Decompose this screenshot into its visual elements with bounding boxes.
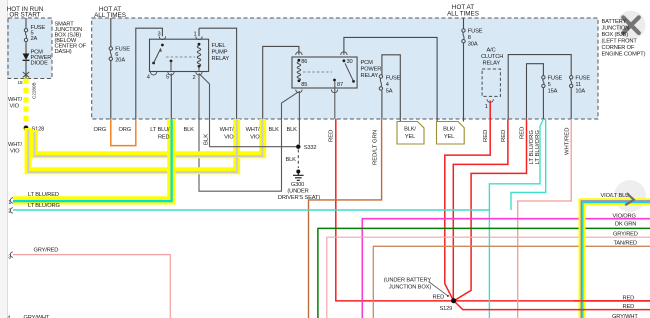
- svg-text:5A: 5A: [386, 89, 393, 95]
- button next circle: [614, 180, 646, 212]
- diode PCM POWER DIODE: [23, 54, 30, 61]
- wire RED staircase 3 to S129: [454, 119, 526, 301]
- pin 86: [296, 52, 302, 55]
- svg-text:PCM: PCM: [361, 60, 374, 66]
- svg-text:LT BLU/RED: LT BLU/RED: [28, 192, 59, 198]
- svg-text:FUSE: FUSE: [468, 29, 483, 35]
- wire bridge WHT/VIO riser 2 to pin 86: [263, 46, 299, 119]
- svg-text:G300: G300: [291, 182, 304, 188]
- svg-text:POWER: POWER: [361, 67, 382, 73]
- pin 4: [150, 72, 156, 75]
- pin 5: [170, 60, 173, 63]
- svg-text:BLK: BLK: [287, 127, 298, 133]
- svg-text:BOX (BJB): BOX (BJB): [602, 32, 629, 38]
- pin 87: [333, 79, 336, 82]
- svg-text:RED: RED: [433, 295, 445, 301]
- svg-text:C2280B: C2280B: [32, 82, 37, 99]
- svg-text:VIO: VIO: [10, 149, 20, 155]
- svg-text:ENGINE COMPT): ENGINE COMPT): [602, 52, 646, 58]
- svg-text:FUSE: FUSE: [575, 76, 590, 82]
- wire TAN/RED: [373, 246, 650, 318]
- svg-text:1: 1: [8, 200, 11, 206]
- svg-text:30: 30: [347, 59, 353, 65]
- wire pin2 to S332 riser (diagonal): [199, 74, 210, 147]
- fuse F8: [462, 29, 465, 32]
- wire LT BLU/ORG long line: [13, 209, 489, 211]
- svg-text:RED: RED: [483, 130, 489, 142]
- svg-text:YEL: YEL: [444, 134, 454, 140]
- svg-text:FUSE: FUSE: [548, 76, 563, 82]
- svg-text:30A: 30A: [468, 42, 478, 48]
- svg-text:TAN/RED: TAN/RED: [614, 240, 638, 246]
- wire pin2 / pin85 ground strap U: [199, 74, 299, 192]
- svg-text:GRY/RED: GRY/RED: [34, 248, 59, 254]
- wire RED A/C pin1 staircase to S129: [445, 119, 490, 301]
- svg-text:ALL TIMES: ALL TIMES: [447, 11, 479, 18]
- svg-text:2: 2: [192, 75, 195, 81]
- svg-text:10A: 10A: [575, 89, 585, 95]
- switch arm (pcm relay): [352, 80, 355, 83]
- svg-text:ORG: ORG: [94, 127, 107, 133]
- wire GRY/RED (right): [327, 237, 650, 318]
- svg-text:5: 5: [166, 75, 169, 81]
- wire pin5 to box edge (LT BLU/RED above edge): [170, 74, 172, 119]
- svg-text:WHT/RED: WHT/RED: [565, 128, 571, 156]
- svg-text:RELAY: RELAY: [361, 73, 379, 79]
- wire pin85 to S332 riser: [298, 91, 300, 145]
- wire VIO/ORG: [362, 219, 650, 318]
- wire bridge pin30 to BLK/YEL 2: [344, 37, 437, 121]
- svg-text:RED: RED: [520, 127, 526, 139]
- svg-text:GRY/RED: GRY/RED: [613, 231, 638, 237]
- svg-text:JUNCTION BOX): JUNCTION BOX): [389, 285, 432, 291]
- svg-text:RED: RED: [329, 130, 335, 142]
- svg-text:RED: RED: [623, 296, 635, 302]
- smart junction box SJB: [8, 18, 52, 79]
- svg-text:VIO: VIO: [250, 135, 260, 141]
- svg-text:BLK: BLK: [184, 127, 195, 133]
- wire LT BLU/ORG 2 staircase: [511, 119, 546, 210]
- wire GRY/RED (left edge pin 3): [13, 255, 170, 318]
- svg-text:JUNCTION: JUNCTION: [602, 26, 630, 32]
- svg-text:ALL TIMES: ALL TIMES: [94, 12, 126, 19]
- svg-text:VIO/LT BLU: VIO/LT BLU: [601, 193, 630, 199]
- button close X: [623, 17, 639, 33]
- svg-text:VIO/ORG: VIO/ORG: [613, 213, 636, 219]
- fuse F5 (SJB): [24, 29, 27, 32]
- svg-text:FUEL: FUEL: [212, 43, 226, 49]
- svg-text:RED/LT GRN: RED/LT GRN: [373, 130, 379, 165]
- svg-text:ORG: ORG: [119, 127, 132, 133]
- svg-text:RELAY: RELAY: [212, 56, 230, 62]
- wire fuse6 to box edge (ORG above edge): [110, 61, 112, 119]
- button close circle: [617, 11, 646, 40]
- splice S129: [451, 298, 456, 303]
- pin 30: [341, 52, 347, 55]
- wire RED overlay across VIO/LT BLU band: [574, 300, 650, 302]
- battery junction box BJB (main hot-at-all-times box): [92, 18, 598, 119]
- svg-text:15A: 15A: [548, 89, 558, 95]
- svg-text:PUMP: PUMP: [212, 50, 228, 56]
- svg-text:BLK: BLK: [269, 127, 280, 133]
- wire pin87 to box edge (RED below): [334, 81, 336, 119]
- fuse F5 (BJB): [542, 76, 545, 79]
- svg-text:BLK: BLK: [286, 157, 297, 163]
- wire DK GRN: [318, 228, 650, 318]
- wire bridge ORG riser to pin 3: [136, 28, 163, 119]
- svg-text:RED: RED: [158, 135, 170, 141]
- svg-text:(UNDER: (UNDER: [287, 189, 308, 195]
- svg-text:4: 4: [147, 75, 150, 81]
- fuse F11: [570, 76, 573, 79]
- wire fuse11 to box edge: [570, 88, 572, 119]
- wire A/C relay pin1 (RED inside box): [489, 101, 491, 120]
- coil (pcm relay): [297, 62, 300, 81]
- pin 1 (A/C relay): [487, 99, 493, 102]
- svg-text:RED: RED: [501, 130, 507, 142]
- left window border: [0, 0, 7, 318]
- svg-text:BLK: BLK: [204, 134, 210, 145]
- relay K_fuelpump box: [150, 39, 209, 71]
- svg-text:OR START: OR START: [9, 12, 40, 19]
- button next chevron arrow: [625, 193, 634, 205]
- splice S128: [24, 126, 29, 131]
- wire LT BLU/RED highlighted (pin5 riser to left edge pin 1): [13, 119, 171, 200]
- wire fuse5 to diode: [25, 42, 27, 54]
- svg-text:85: 85: [301, 82, 307, 88]
- svg-text:GRY/WHT: GRY/WHT: [612, 314, 638, 318]
- svg-text:CLUTCH: CLUTCH: [481, 54, 503, 60]
- svg-text:RED: RED: [623, 304, 635, 310]
- wire WHT/RED staircase: [518, 119, 572, 318]
- wire bridge pin1 to WHT/VIO riser: [199, 28, 237, 119]
- fuse F6: [109, 47, 112, 50]
- wire fuse8 to BLK/YEL 2 top right: [463, 43, 465, 122]
- svg-text:BATTERY: BATTERY: [602, 19, 627, 25]
- wire fuse8 feed: [463, 18, 465, 29]
- svg-text:3: 3: [157, 32, 160, 38]
- svg-text:BLK/: BLK/: [404, 127, 416, 133]
- svg-text:LT BLU/: LT BLU/: [150, 127, 170, 133]
- wire bridge fuse11 loop: [508, 55, 571, 119]
- svg-text:DIODE: DIODE: [31, 61, 49, 67]
- wire fuse5 feed: [25, 18, 27, 29]
- svg-text:87: 87: [337, 82, 343, 88]
- leader line (UNDER BATTERY JUNCTION BOX): [429, 282, 448, 296]
- svg-text:(LEFT FRONT: (LEFT FRONT: [602, 39, 638, 45]
- svg-text:1: 1: [485, 104, 488, 110]
- wire RED staircase 2 to S129: [453, 119, 508, 299]
- dashed relay link 2: [303, 71, 332, 73]
- pin 3: [159, 36, 165, 39]
- svg-text:WHT/: WHT/: [246, 127, 260, 133]
- svg-text:A/C: A/C: [487, 48, 496, 54]
- svg-text:WHT/: WHT/: [8, 142, 22, 148]
- svg-text:BLK/: BLK/: [443, 127, 455, 133]
- svg-text:S129: S129: [440, 306, 453, 312]
- pin 85: [296, 90, 302, 93]
- svg-text:4: 4: [386, 82, 389, 88]
- wire RED pin87 down and right through S129: [336, 119, 650, 301]
- svg-text:2A: 2A: [31, 36, 38, 42]
- svg-text:LT BLU/ORG: LT BLU/ORG: [28, 203, 60, 209]
- svg-text:DASH): DASH): [55, 49, 72, 55]
- svg-text:FUSE: FUSE: [386, 76, 401, 82]
- svg-text:WHT/: WHT/: [8, 97, 22, 103]
- offpage BLK/YEL 1: [397, 122, 424, 145]
- wire fuse4 holder loop to BLK/YEL 1: [382, 55, 400, 122]
- wire fuse6 feed: [110, 18, 112, 47]
- wire VIO/LT BLU highlighted: [582, 202, 650, 318]
- svg-text:1: 1: [193, 32, 196, 38]
- svg-text:DK GRN: DK GRN: [615, 222, 636, 228]
- wire RED out of S129 lower: [455, 302, 650, 310]
- svg-text:18: 18: [18, 80, 24, 85]
- connector C2280B X symbol: [23, 72, 29, 77]
- svg-text:20A: 20A: [115, 58, 125, 64]
- wire LT BLU/ORG 1 (fuse5 out) staircase: [489, 119, 543, 318]
- svg-text:(UNDER BATTERY: (UNDER BATTERY: [384, 278, 432, 284]
- splice S332: [210, 146, 297, 148]
- wire bridge fuse5 loop: [527, 64, 544, 119]
- wire WHT/VIO highlighted run 2 (S128 to riser x236): [28, 119, 237, 172]
- wire WHT/VIO highlighted (SJB to S128): [23, 79, 28, 127]
- svg-text:11: 11: [575, 82, 581, 88]
- ground G300: [296, 170, 300, 174]
- svg-text:WHT/: WHT/: [220, 127, 234, 133]
- wire BLK S332 to G300 (dashed): [297, 150, 299, 169]
- wire RED/LT GRN (fuse4 output): [309, 119, 382, 318]
- coil (fuel pump relay) pins 1-2: [198, 28, 200, 36]
- svg-text:8: 8: [468, 35, 471, 41]
- offpage BLK/YEL 2: [437, 122, 465, 145]
- wire WHT/VIO highlighted run 1 (S128 to riser x262): [34, 119, 262, 155]
- dashed relay link: [166, 56, 195, 58]
- fuse F4: [379, 75, 382, 78]
- wire fuse5 to box edge: [542, 88, 544, 119]
- svg-text:S332: S332: [304, 145, 317, 151]
- svg-text:CORNER OF: CORNER OF: [602, 45, 635, 51]
- switch arm (fuel pump relay): [161, 44, 164, 47]
- svg-text:VIO: VIO: [224, 135, 234, 141]
- svg-text:5: 5: [548, 82, 551, 88]
- relay K_pcm box: [292, 57, 357, 88]
- svg-text:VIO: VIO: [10, 104, 20, 110]
- svg-text:86: 86: [301, 59, 307, 65]
- svg-text:YEL: YEL: [405, 134, 415, 140]
- wire diode to connector: [25, 60, 27, 78]
- svg-text:RELAY: RELAY: [483, 61, 501, 67]
- wire ORG U-loop: [111, 119, 136, 146]
- wire fuse4 to box edge (RED/LT GRN below): [381, 91, 383, 119]
